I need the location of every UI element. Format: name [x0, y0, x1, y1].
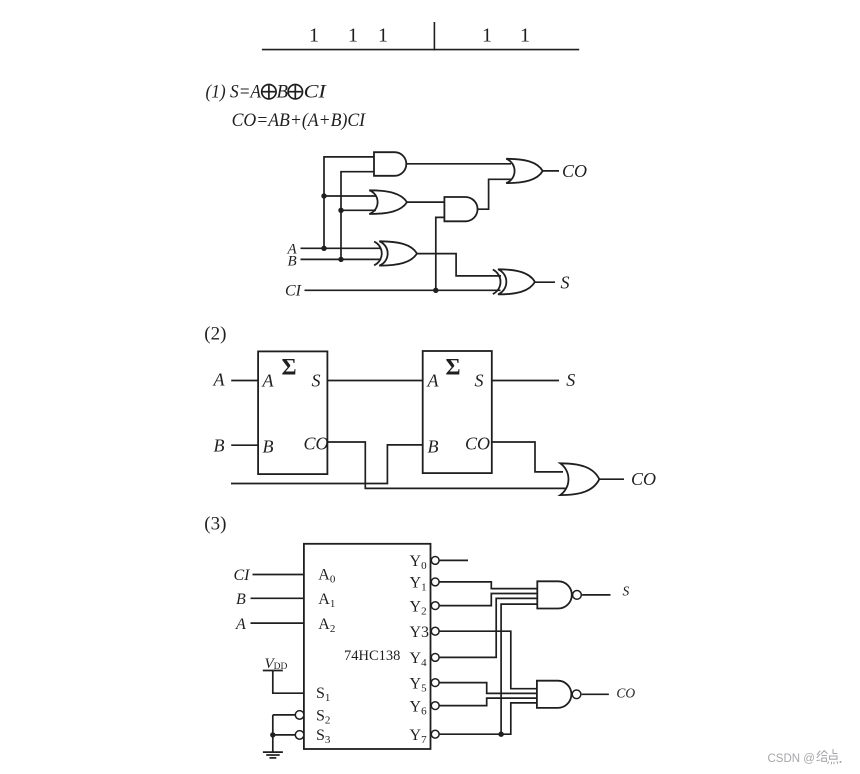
svg-text:A: A: [235, 616, 246, 633]
svg-text:CO: CO: [631, 469, 656, 489]
svg-text:CI: CI: [285, 283, 302, 300]
svg-text:S1: S1: [316, 685, 330, 704]
svg-text:Y7: Y7: [410, 727, 428, 746]
svg-text:Y0: Y0: [410, 553, 428, 572]
svg-text:B: B: [428, 437, 439, 457]
svg-text:CO=AB+(A+B)CI: CO=AB+(A+B)CI: [232, 110, 367, 131]
svg-text:Y5: Y5: [410, 675, 428, 694]
svg-text:S: S: [623, 584, 630, 599]
svg-text:Y6: Y6: [410, 698, 428, 717]
svg-text:CO: CO: [616, 686, 635, 701]
svg-text:Y1: Y1: [410, 575, 427, 594]
svg-text:A: A: [262, 371, 275, 391]
svg-text:CI: CI: [234, 567, 251, 584]
svg-text:S: S: [566, 370, 575, 390]
svg-text:CO: CO: [304, 434, 329, 454]
svg-text:S: S: [561, 273, 570, 293]
svg-text:1: 1: [520, 25, 530, 47]
svg-text:1: 1: [309, 25, 319, 47]
svg-text:1: 1: [378, 25, 388, 47]
svg-text:A1: A1: [318, 591, 335, 610]
svg-text:CO: CO: [465, 434, 490, 454]
svg-text:S3: S3: [316, 727, 331, 746]
svg-text:(3): (3): [204, 514, 226, 535]
svg-text:Y2: Y2: [410, 598, 427, 617]
svg-text:B: B: [288, 253, 297, 269]
svg-text:A: A: [213, 370, 226, 390]
svg-text:S: S: [312, 371, 321, 391]
svg-text:Y3: Y3: [410, 624, 430, 641]
svg-text:A: A: [427, 371, 440, 391]
svg-text:VDD: VDD: [265, 656, 288, 672]
svg-text:B: B: [277, 82, 289, 103]
svg-text:A0: A0: [318, 567, 336, 586]
svg-text:S: S: [475, 371, 484, 391]
svg-text:B: B: [236, 591, 246, 608]
svg-text:A2: A2: [318, 616, 335, 635]
svg-text:Σ: Σ: [445, 355, 460, 380]
svg-text:CSDN @: CSDN @: [768, 753, 815, 765]
svg-text:74HC138: 74HC138: [344, 648, 400, 664]
svg-text:Y4: Y4: [410, 650, 428, 669]
svg-text:B: B: [263, 437, 274, 457]
svg-text:(1) S=A: (1) S=A: [206, 82, 262, 103]
svg-text:S2: S2: [316, 708, 330, 727]
svg-text:1: 1: [482, 25, 492, 47]
svg-text:B: B: [214, 436, 225, 456]
svg-text:(2): (2): [204, 324, 226, 345]
svg-text:Σ: Σ: [281, 355, 296, 380]
svg-text:CO: CO: [562, 161, 587, 181]
svg-text:CI: CI: [304, 82, 328, 103]
svg-text:1: 1: [348, 25, 358, 47]
